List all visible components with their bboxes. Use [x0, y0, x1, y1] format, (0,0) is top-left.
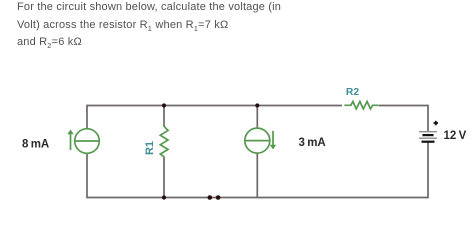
node: bottom junction b [216, 195, 221, 200]
battery V1 (12 V) [419, 132, 437, 142]
question text [17, 0, 281, 52]
wire: bottom rail [87, 197, 428, 199]
svg-text:12 V: 12 V [444, 130, 467, 142]
svg-text:R2: R2 [346, 87, 359, 98]
node: R1 top junction [162, 103, 166, 107]
svg-text:3 mA: 3 mA [299, 137, 326, 149]
current source I2 (3 mA) [245, 128, 276, 153]
resistor R2 (zigzag) [344, 102, 378, 109]
wire: R1 branch upper [163, 106, 165, 127]
wire: right rail lower (from battery) [427, 142, 429, 199]
wire: left rail upper [86, 105, 88, 129]
current source I1 (8 mA) [67, 129, 99, 154]
node: bottom junction a [208, 195, 213, 200]
svg-text:R1: R1 [144, 141, 156, 155]
wire: 3mA branch upper [256, 106, 258, 129]
wire: top rail left of R2 [87, 105, 342, 107]
node: 3mA top junction [255, 103, 259, 107]
svg-text:8 mA: 8 mA [22, 139, 49, 151]
wire: R1 branch lower [163, 157, 165, 198]
battery plus mark [434, 121, 438, 126]
wire: 3mA branch lower [256, 153, 258, 197]
wire: right rail upper (to battery) [427, 105, 429, 132]
resistor R1 (zigzag) [160, 126, 168, 157]
wire: left rail lower [86, 154, 88, 199]
node: R1 bottom junction [162, 195, 166, 199]
wire: top rail right of R2 [379, 105, 429, 107]
